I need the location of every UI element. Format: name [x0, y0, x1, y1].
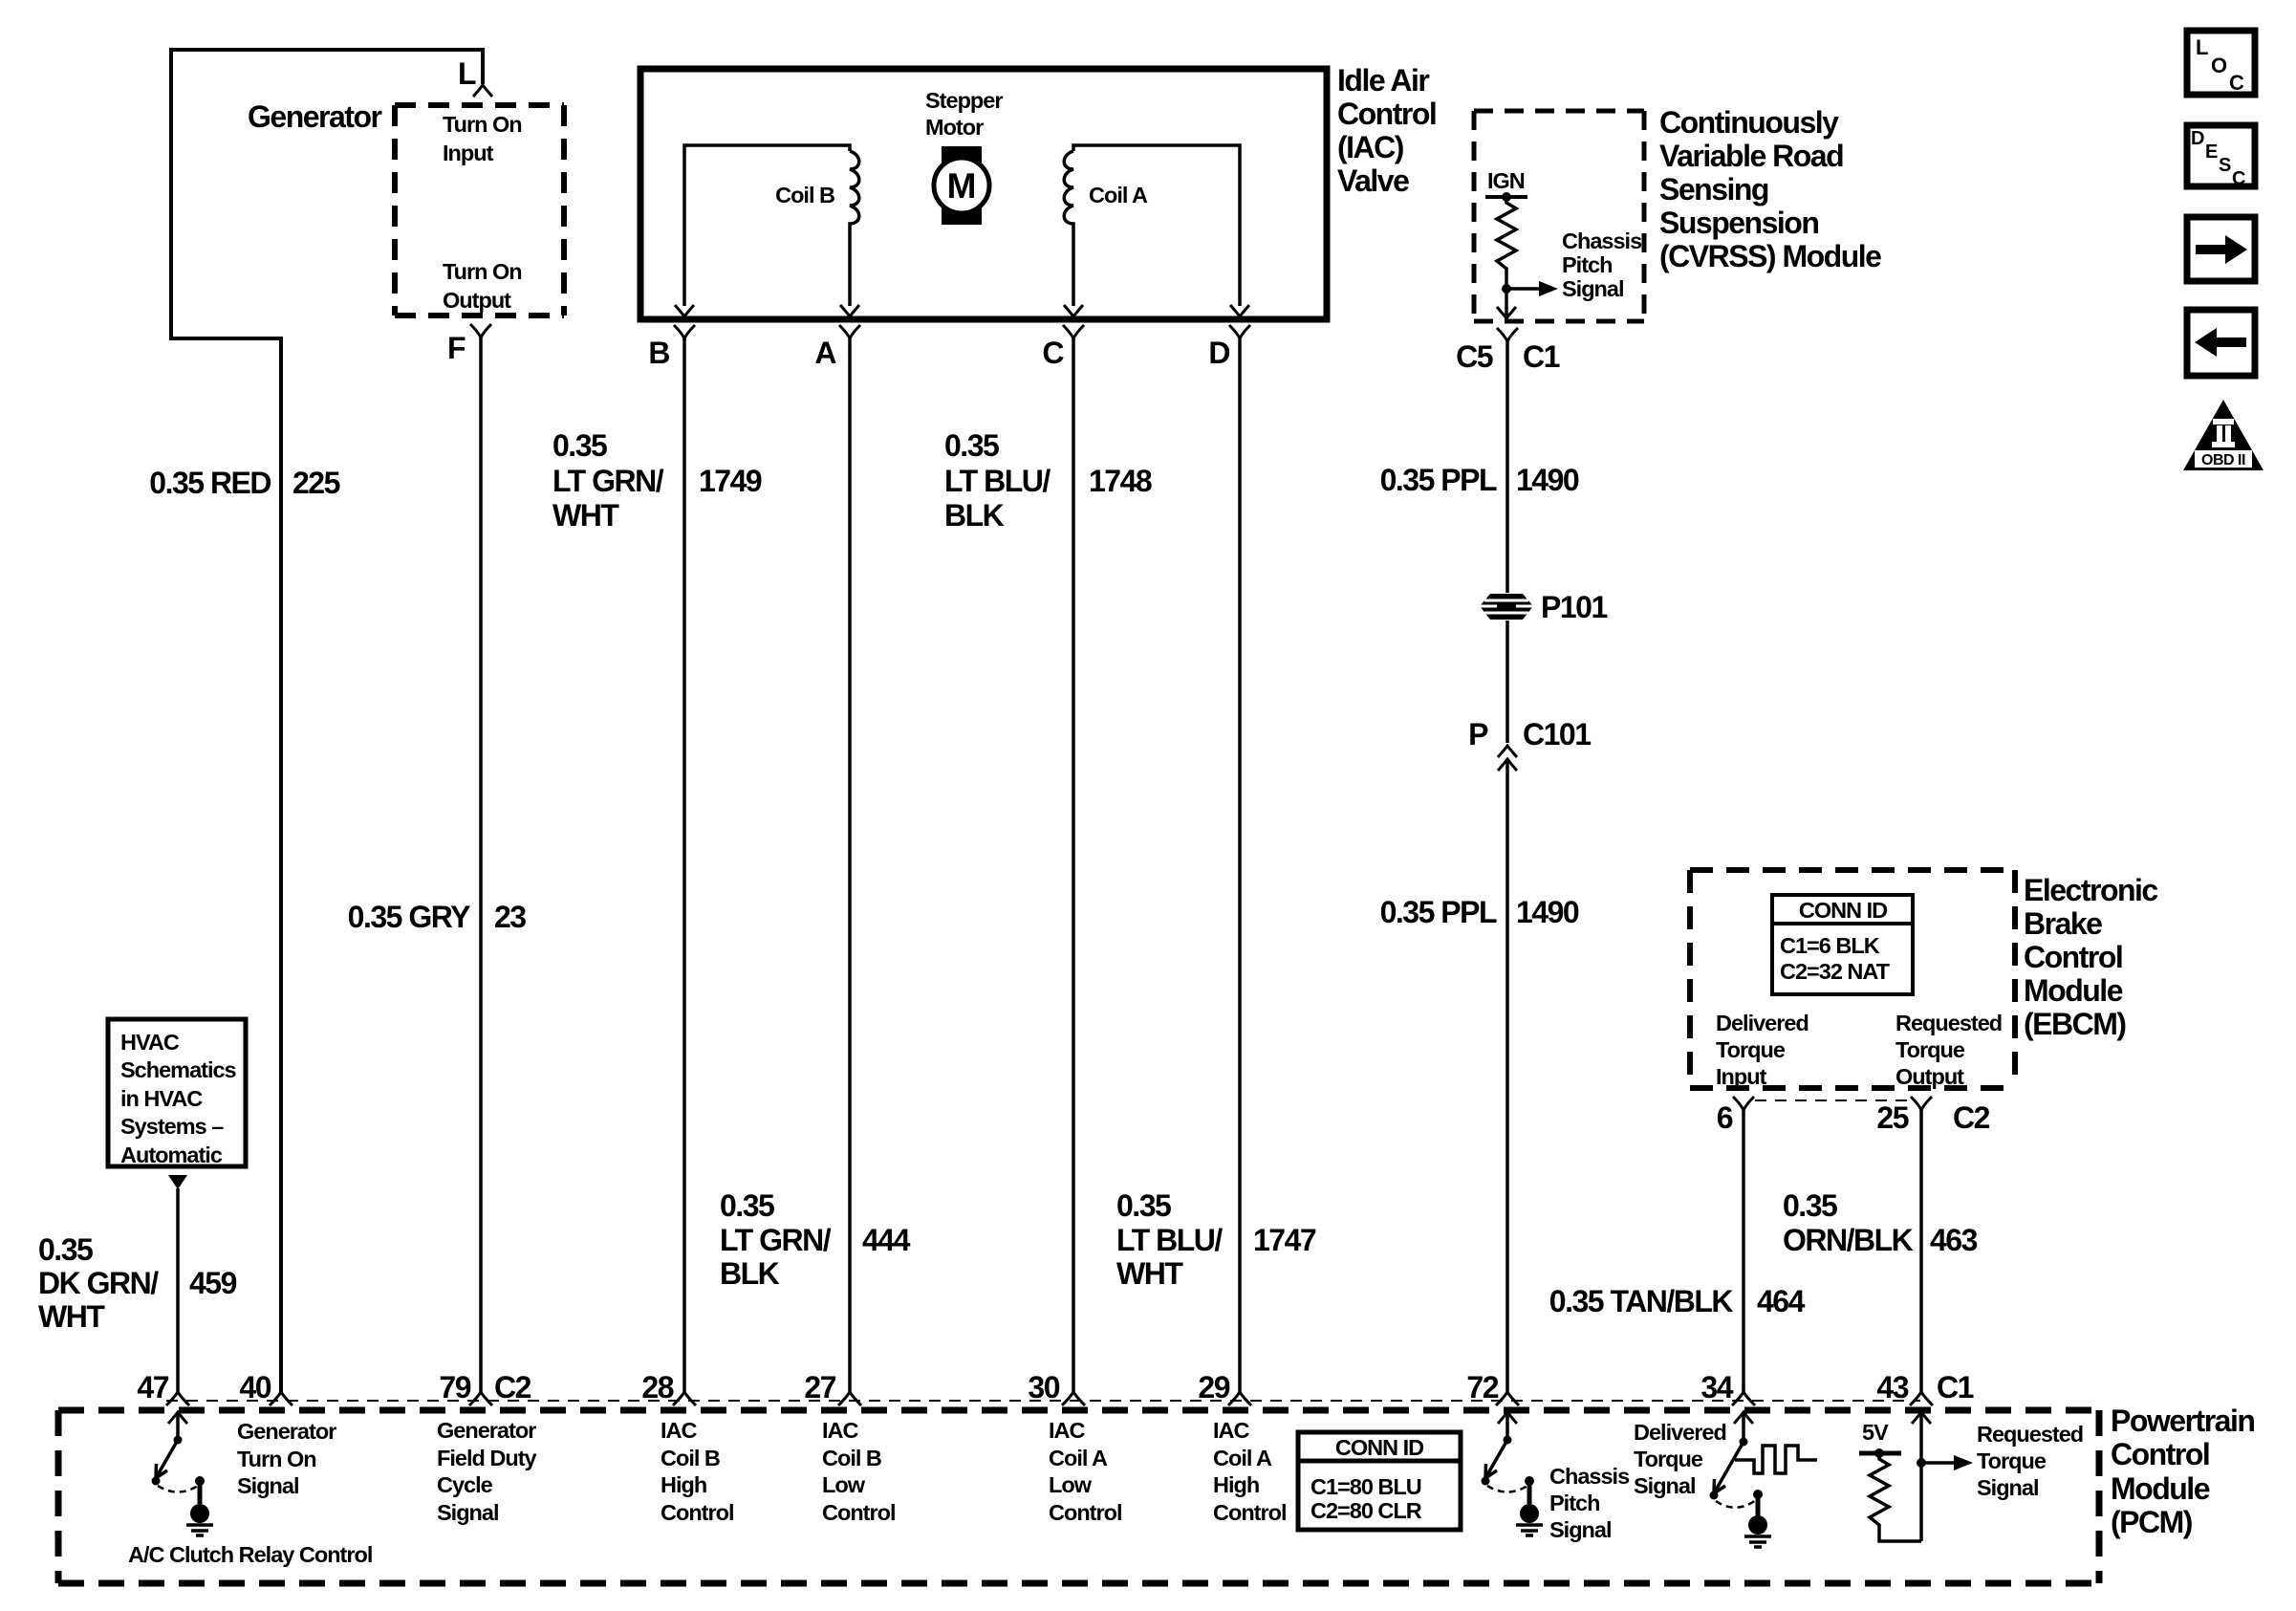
svg-text:225: 225: [292, 466, 340, 500]
svg-text:B: B: [648, 336, 669, 370]
wire: 0.35 PPL 1490 P101 to C101: [1505, 620, 1509, 743]
svg-text:0.35: 0.35: [38, 1232, 93, 1267]
svg-text:A: A: [814, 336, 836, 370]
svg-text:Cycle: Cycle: [437, 1472, 493, 1497]
svg-text:29: 29: [1198, 1370, 1229, 1404]
pin F connector Y: [470, 324, 491, 337]
svg-text:HVAC: HVAC: [120, 1030, 180, 1055]
wire: 0.35 LT GRN/BLK 444 IAC A to PCM 27: [848, 338, 852, 1392]
svg-text:P: P: [1468, 717, 1488, 751]
svg-text:C2=32 NAT: C2=32 NAT: [1780, 959, 1891, 984]
svg-text:6: 6: [1717, 1100, 1733, 1135]
wire: 0.35 DK GRN/WHT 459 HVAC to PCM 47: [176, 1188, 180, 1392]
svg-text:Control: Control: [1337, 97, 1436, 131]
svg-text:O: O: [2211, 54, 2227, 77]
svg-text:Control: Control: [2111, 1437, 2209, 1471]
svg-text:Signal: Signal: [237, 1473, 299, 1498]
coil B down arrow to B: [675, 305, 694, 316]
svg-text:BLK: BLK: [720, 1256, 780, 1291]
PCM pin 27 connector Y: [838, 1392, 861, 1405]
wire: 0.35 TAN/BLK 464 EBCM 6 to PCM 34: [1742, 1109, 1745, 1392]
svg-text:Electronic: Electronic: [2024, 873, 2157, 907]
svg-text:Brake: Brake: [2024, 906, 2102, 941]
svg-text:Turn On: Turn On: [443, 259, 522, 284]
svg-text:0.35 RED: 0.35 RED: [149, 466, 271, 500]
ground at A/C clutch relay switch: [186, 1483, 213, 1535]
svg-text:0.35 PPL: 0.35 PPL: [1380, 463, 1497, 497]
svg-text:C: C: [2232, 168, 2245, 189]
svg-text:5V: 5V: [1862, 1420, 1889, 1445]
wire: 0.35 LT BLU/BLK 1748 IAC C to PCM 30: [1072, 338, 1075, 1392]
svg-text:Generator: Generator: [237, 1419, 336, 1444]
switch S2 Chassis Pitch Signal (pin 72): [1482, 1412, 1535, 1492]
svg-text:1490: 1490: [1516, 463, 1579, 497]
svg-text:Continuously: Continuously: [1659, 105, 1839, 140]
svg-text:Output: Output: [443, 288, 511, 313]
svg-text:Generator: Generator: [248, 99, 381, 134]
svg-text:Signal: Signal: [1634, 1473, 1696, 1498]
svg-text:D: D: [1208, 336, 1229, 370]
svg-text:Generator: Generator: [437, 1418, 536, 1443]
svg-text:Requested: Requested: [1895, 1011, 2002, 1035]
coil A down arrow to D: [1230, 305, 1249, 316]
svg-text:C5: C5: [1456, 339, 1493, 374]
svg-text:1748: 1748: [1089, 464, 1152, 498]
svg-text:0.35: 0.35: [1116, 1188, 1171, 1223]
svg-text:47: 47: [137, 1370, 168, 1404]
junction dot 5V: [1874, 1448, 1884, 1458]
CVRSS module dashed box: [1474, 111, 1644, 321]
svg-text:F: F: [447, 331, 466, 365]
wire: 0.35 LT BLU/WHT 1747 IAC D to PCM 29: [1238, 338, 1242, 1392]
HVAC pointer triangle: [168, 1175, 187, 1189]
svg-text:Output: Output: [1895, 1064, 1964, 1089]
svg-text:463: 463: [1930, 1223, 1978, 1257]
svg-text:WHT: WHT: [552, 498, 619, 533]
svg-text:Torque: Torque: [1634, 1447, 1703, 1471]
svg-text:Input: Input: [1716, 1064, 1767, 1089]
svg-text:Low: Low: [822, 1472, 866, 1497]
svg-text:Signal: Signal: [437, 1500, 499, 1525]
switch S1 Generator Turn On Signal (pin 47): [152, 1412, 206, 1492]
svg-text:Schematics: Schematics: [120, 1057, 237, 1082]
arrow to Requested Torque Signal: [1921, 1461, 1954, 1465]
svg-text:Motor: Motor: [925, 115, 984, 140]
svg-text:Coil A: Coil A: [1089, 183, 1148, 207]
EBCM CONN ID table: [1772, 895, 1913, 994]
svg-text:464: 464: [1757, 1284, 1806, 1318]
EBCM pin 6 connector Y: [1733, 1097, 1754, 1110]
PCM pin 47 connector Y: [166, 1392, 189, 1405]
svg-text:LT GRN/: LT GRN/: [720, 1223, 832, 1257]
junction dot at IGN: [1502, 192, 1511, 202]
IAC valve box: [640, 69, 1327, 319]
wire: 0.35 ORN/BLK 463 EBCM 25 to PCM 43: [1919, 1109, 1923, 1392]
svg-text:Valve: Valve: [1337, 163, 1409, 198]
svg-text:Input: Input: [443, 141, 494, 165]
pin L connector chevron: [473, 85, 492, 97]
svg-text:28: 28: [641, 1370, 673, 1404]
ground at delivered torque switch: [1744, 1496, 1771, 1547]
svg-text:0.35 PPL: 0.35 PPL: [1380, 895, 1497, 929]
square wave symbol: [1735, 1446, 1817, 1473]
svg-text:C1: C1: [1937, 1370, 1974, 1404]
svg-text:Control: Control: [661, 1500, 734, 1525]
svg-text:C1: C1: [1523, 339, 1560, 374]
svg-text:C: C: [1042, 336, 1064, 370]
svg-text:Requested: Requested: [1977, 1422, 2083, 1447]
grommet P101: [1480, 594, 1533, 620]
svg-text:in HVAC: in HVAC: [120, 1086, 203, 1111]
svg-text:Turn On: Turn On: [237, 1447, 316, 1471]
svg-text:C1=6 BLK: C1=6 BLK: [1780, 933, 1880, 958]
svg-text:DK GRN/: DK GRN/: [38, 1266, 159, 1300]
pin A connector Y: [839, 325, 860, 338]
icon LOC box: [2187, 31, 2255, 95]
svg-text:C1=80 BLU: C1=80 BLU: [1310, 1474, 1421, 1499]
svg-text:Torque: Torque: [1716, 1037, 1786, 1062]
svg-text:LT BLU/: LT BLU/: [944, 464, 1051, 498]
svg-text:IAC: IAC: [1213, 1418, 1250, 1443]
svg-text:Signal: Signal: [1977, 1475, 2039, 1500]
svg-text:459: 459: [189, 1266, 237, 1300]
wire: 0.35 RED 225 from Generator L to PCM pin 40 (with top run to L): [171, 50, 483, 1392]
svg-text:Sensing: Sensing: [1659, 172, 1768, 207]
pull-up resistor: [1870, 1453, 1921, 1541]
svg-text:Torque: Torque: [1977, 1448, 2047, 1473]
svg-text:C2: C2: [1953, 1100, 1990, 1135]
arrow to Chassis Pitch Signal: [1506, 287, 1539, 291]
svg-text:S: S: [2219, 155, 2231, 176]
svg-text:WHT: WHT: [38, 1299, 105, 1334]
svg-text:27: 27: [804, 1370, 835, 1404]
coil A of IAC stepper motor: [1073, 145, 1240, 306]
wire to CVRSS pin C5 with down arrow: [1505, 289, 1508, 316]
wire: 0.35 GRY 23 from Generator F to PCM pin 79: [479, 337, 483, 1392]
svg-text:D: D: [2191, 128, 2204, 149]
svg-text:Coil B: Coil B: [775, 183, 834, 207]
connector C101 double chevron: [1498, 746, 1517, 757]
svg-text:34: 34: [1700, 1370, 1733, 1404]
PCM pin 72 connector Y: [1496, 1392, 1519, 1405]
icon back arrow box: [2187, 310, 2255, 376]
svg-text:Delivered: Delivered: [1716, 1011, 1809, 1035]
svg-text:43: 43: [1876, 1370, 1908, 1404]
svg-text:IAC: IAC: [661, 1418, 698, 1443]
svg-text:LT GRN/: LT GRN/: [552, 464, 664, 498]
svg-text:Module: Module: [2111, 1471, 2210, 1506]
svg-text:L: L: [2196, 35, 2208, 59]
svg-text:0.35 GRY: 0.35 GRY: [348, 900, 470, 934]
wire: 0.35 PPL 1490 CVRSS C5 to P101: [1505, 341, 1509, 593]
svg-text:Stepper: Stepper: [925, 88, 1003, 113]
PCM pin 30 connector Y: [1062, 1392, 1085, 1405]
svg-text:Signal: Signal: [1549, 1517, 1612, 1542]
svg-text:Control: Control: [1213, 1500, 1287, 1525]
coil A down arrow to C: [1064, 305, 1083, 316]
PCM connector thin dashed line: [166, 1400, 1920, 1402]
svg-text:1490: 1490: [1516, 895, 1579, 929]
svg-text:Delivered: Delivered: [1634, 1420, 1726, 1445]
svg-text:Pitch: Pitch: [1549, 1491, 1599, 1515]
svg-text:IAC: IAC: [1049, 1418, 1086, 1443]
svg-text:Chassis: Chassis: [1562, 229, 1642, 253]
svg-text:LT BLU/: LT BLU/: [1116, 1223, 1223, 1257]
svg-text:CONN ID: CONN ID: [1799, 898, 1887, 923]
svg-text:0.35: 0.35: [944, 428, 999, 463]
svg-text:1749: 1749: [699, 464, 762, 498]
svg-text:OBD II: OBD II: [2201, 452, 2245, 468]
svg-text:Module: Module: [2024, 973, 2123, 1008]
svg-text:Control: Control: [1049, 1500, 1122, 1525]
junction dot chassis pitch: [1502, 284, 1511, 294]
svg-text:A/C Clutch Relay Control: A/C Clutch Relay Control: [128, 1542, 372, 1567]
pin B connector Y: [674, 325, 695, 338]
PCM CONN ID table: [1298, 1432, 1461, 1530]
svg-text:Signal: Signal: [1562, 276, 1624, 301]
svg-text:Suspension: Suspension: [1659, 206, 1818, 240]
svg-text:Idle Air: Idle Air: [1337, 63, 1429, 98]
PCM dashed box: [58, 1410, 2099, 1583]
switch S3 Delivered Torque Signal (pin 34): [1710, 1412, 1764, 1508]
PCM pin 34 connector Y: [1732, 1392, 1755, 1405]
svg-text:Control: Control: [822, 1500, 896, 1525]
svg-text:(IAC): (IAC): [1337, 130, 1404, 164]
svg-text:25: 25: [1876, 1100, 1908, 1135]
svg-text:IGN: IGN: [1487, 168, 1525, 193]
svg-text:P101: P101: [1541, 590, 1607, 624]
wire: 0.35 PPL 1490 C101 to PCM pin 72: [1505, 762, 1509, 1392]
svg-text:72: 72: [1466, 1370, 1498, 1404]
svg-text:Pitch: Pitch: [1562, 252, 1612, 277]
coil B of IAC stepper motor: [684, 145, 850, 306]
svg-text:Field Duty: Field Duty: [437, 1446, 537, 1470]
PCM pin 28 connector Y: [673, 1392, 696, 1405]
pin D connector Y: [1229, 325, 1250, 338]
IGN supply bar: [1485, 195, 1527, 199]
ground at chassis pitch switch: [1516, 1483, 1543, 1535]
EBCM connector C2 thin dashed line: [1755, 1099, 1910, 1101]
svg-text:Turn On: Turn On: [443, 112, 522, 137]
svg-text:BLK: BLK: [944, 498, 1005, 533]
svg-text:Torque: Torque: [1895, 1037, 1965, 1062]
svg-text:Low: Low: [1049, 1472, 1093, 1497]
EBCM dashed box: [1690, 870, 2015, 1088]
svg-text:WHT: WHT: [1116, 1256, 1183, 1291]
svg-text:Automatic: Automatic: [120, 1143, 223, 1167]
svg-text:Coil A: Coil A: [1213, 1446, 1272, 1470]
generator dashed box: [395, 102, 564, 108]
svg-text:Variable Road: Variable Road: [1659, 139, 1843, 173]
svg-text:M: M: [947, 166, 977, 206]
PCM pin 43 connector Y: [1910, 1392, 1933, 1405]
svg-text:40: 40: [239, 1370, 271, 1404]
svg-text:Control: Control: [2024, 940, 2122, 974]
svg-text:(EBCM): (EBCM): [2024, 1007, 2126, 1041]
svg-text:E: E: [2205, 142, 2218, 163]
PCM pin 79 connector Y: [469, 1392, 492, 1405]
svg-text:IAC: IAC: [822, 1418, 859, 1443]
resistor in CVRSS: [1497, 197, 1516, 289]
svg-text:Chassis: Chassis: [1549, 1464, 1630, 1489]
svg-text:C2: C2: [494, 1370, 531, 1404]
pin C connector Y: [1063, 325, 1084, 338]
icon OBD II triangle: [2183, 400, 2264, 470]
HVAC schematics reference box: [108, 1019, 246, 1166]
svg-text:79: 79: [439, 1370, 470, 1404]
svg-text:0.35: 0.35: [552, 428, 607, 463]
svg-text:1747: 1747: [1253, 1223, 1316, 1257]
5V supply bar: [1859, 1451, 1901, 1456]
svg-text:Coil B: Coil B: [661, 1446, 720, 1470]
coil B down arrow to A: [840, 305, 859, 316]
PCM pin 40 connector Y: [270, 1392, 292, 1405]
svg-text:0.35: 0.35: [1783, 1188, 1837, 1223]
svg-text:L: L: [458, 56, 476, 91]
svg-text:Coil A: Coil A: [1049, 1446, 1108, 1470]
svg-text:CONN ID: CONN ID: [1335, 1435, 1423, 1460]
svg-text:(CVRSS) Module: (CVRSS) Module: [1659, 239, 1881, 273]
svg-text:Systems –: Systems –: [120, 1114, 224, 1139]
svg-text:Coil B: Coil B: [822, 1446, 881, 1470]
svg-text:0.35: 0.35: [720, 1188, 774, 1223]
PCM pin 29 connector Y: [1228, 1392, 1251, 1405]
svg-text:444: 444: [862, 1223, 911, 1257]
stepper motor M symbol: [942, 146, 982, 225]
wire: 0.35 LT GRN/WHT 1749 IAC B to PCM 28: [682, 338, 686, 1392]
junction dot requested torque: [1917, 1458, 1926, 1468]
wire pin 43 internal with up arrow: [1919, 1414, 1923, 1541]
svg-text:C101: C101: [1523, 717, 1591, 751]
svg-text:Powertrain: Powertrain: [2111, 1404, 2254, 1438]
svg-text:C2=80 CLR: C2=80 CLR: [1310, 1498, 1422, 1523]
svg-text:(PCM): (PCM): [2111, 1505, 2193, 1539]
svg-text:High: High: [1213, 1472, 1259, 1497]
svg-text:ORN/BLK: ORN/BLK: [1783, 1223, 1914, 1257]
icon DESC box: [2187, 125, 2255, 189]
EBCM pin 25 connector Y: [1911, 1097, 1932, 1110]
svg-text:0.35 TAN/BLK: 0.35 TAN/BLK: [1549, 1284, 1734, 1318]
icon forward arrow box: [2187, 217, 2255, 281]
pin C5 connector Y: [1497, 328, 1518, 341]
svg-text:23: 23: [494, 900, 526, 934]
svg-text:C: C: [2229, 71, 2244, 95]
svg-text:30: 30: [1028, 1370, 1059, 1404]
svg-text:High: High: [661, 1472, 706, 1497]
